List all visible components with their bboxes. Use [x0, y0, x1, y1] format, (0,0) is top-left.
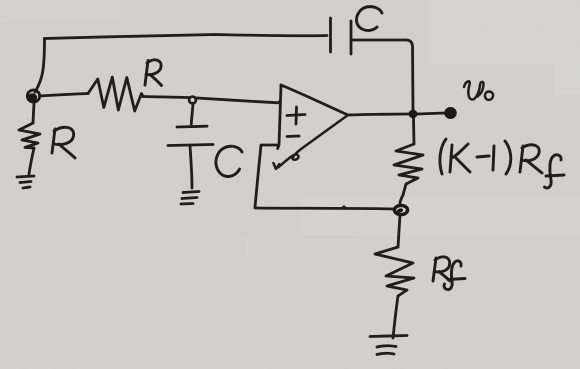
label C2 value C (middle): [216, 146, 242, 176]
resistor R4 Rf: [375, 247, 414, 296]
wire: node A to resistor R1: [40, 94, 88, 97]
resistor R1: [88, 77, 143, 111]
label (K-1)Rf: [440, 139, 446, 174]
wire: resistor R3 to node C: [400, 195, 403, 203]
wire: resistor R2 to ground: [29, 148, 34, 174]
wire: capacitor C2 to ground: [190, 146, 192, 188]
capacitor C1 right plate: [350, 21, 353, 54]
junction tick at op-amp + input: [278, 100, 282, 104]
wire: node A down to resistor R2: [33, 103, 34, 123]
op-amp U1 body: [278, 85, 281, 149]
terminal vo: [445, 108, 456, 118]
label v0: [464, 81, 484, 99]
label R4 value Rf: [433, 258, 436, 281]
wire: feedback bottom to node C: [255, 208, 395, 209]
wire: node vo down to resistor R3: [412, 118, 415, 144]
resistor R2: [19, 123, 40, 148]
capacitor C1 left plate: [329, 18, 332, 52]
op-amp - sign: [287, 135, 299, 138]
node vo: [409, 110, 418, 118]
wire: node B to op-amp + input: [197, 98, 279, 103]
wire: capacitor C1 to output corner: [352, 40, 413, 110]
capacitor C2 bottom plate: [168, 145, 213, 146]
ground below R2: [17, 176, 34, 177]
node A: [27, 90, 39, 102]
op-amp + sign: [287, 115, 305, 116]
label C1 value C (top): [356, 7, 382, 31]
resistor R3 (K-1)Rf: [394, 144, 423, 195]
node B: [189, 97, 196, 104]
ground below C2: [183, 192, 199, 193]
wire: node C down to resistor R4: [398, 215, 400, 247]
junction dot on feedback wire: [342, 206, 346, 210]
wire: resistor R1 to node B: [143, 97, 189, 98]
wire: resistor R4 to ground: [393, 296, 398, 338]
wire: node vo to terminal: [417, 113, 445, 114]
wire: node A up to top rail: [35, 39, 45, 93]
ground bottom: [370, 336, 407, 337]
node C: [394, 205, 407, 214]
wire: op-amp - bracket: [255, 145, 277, 207]
op-amp U1 input arrow: [273, 163, 279, 169]
label R1 value R (top): [145, 61, 148, 86]
label R2 value R (left): [52, 129, 55, 153]
wire: node B down to capacitor C2: [191, 104, 193, 124]
wire: top rail to capacitor C1: [45, 35, 328, 39]
capacitor C2 top plate: [177, 125, 207, 129]
wire: op-amp output to node vo: [348, 114, 409, 115]
